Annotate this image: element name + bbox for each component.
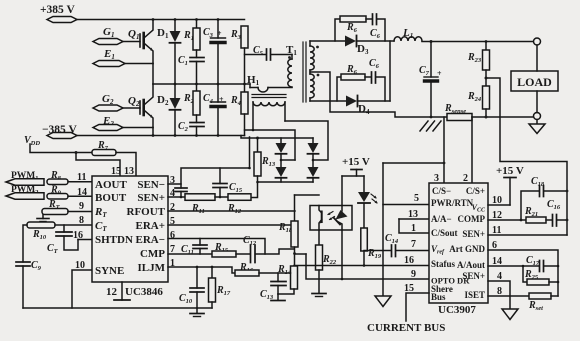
pin 12 label UC3907 <box>492 210 502 221</box>
pin 9 label UC3907 <box>411 269 416 280</box>
transformer T1 <box>286 41 319 102</box>
svg-text:12: 12 <box>492 210 502 221</box>
capacitor C10 <box>179 266 204 308</box>
svg-text:BOUT: BOUT <box>95 192 127 204</box>
resistor R19 <box>361 228 382 266</box>
wire share bus <box>406 293 429 321</box>
svg-text:10: 10 <box>75 260 85 271</box>
wire divider tap <box>485 77 568 236</box>
svg-text:C/S+: C/S+ <box>466 186 485 196</box>
wire rectifier join <box>389 41 391 101</box>
wire Q2 emitter to rail <box>152 128 154 136</box>
svg-text:16: 16 <box>73 230 83 241</box>
capacitor C4 <box>203 84 226 136</box>
svg-text:Stafus: Stafus <box>431 259 456 269</box>
wire ground rail bottom <box>23 307 212 309</box>
resistor R6 top snubber <box>335 16 372 41</box>
pin 3 label <box>170 175 175 186</box>
node CURRENT BUS <box>367 322 445 334</box>
wire RFOUT <box>168 210 295 212</box>
wire SHTDN <box>78 239 92 241</box>
svg-text:ERA−: ERA− <box>136 234 166 246</box>
capacitor C15 <box>213 168 243 197</box>
op-amp U2 UC3907 box <box>429 183 488 303</box>
inductor L1 <box>394 27 422 41</box>
wire bridge AC right <box>285 121 328 160</box>
node -385V label <box>42 124 77 136</box>
svg-text:SEN+: SEN+ <box>137 192 165 204</box>
diode bridge right bottom <box>308 167 319 182</box>
svg-text:11: 11 <box>77 172 86 183</box>
load box <box>511 71 558 91</box>
wire output return <box>472 116 534 118</box>
svg-text:ERA+: ERA+ <box>136 220 166 232</box>
node +15V right <box>496 165 524 205</box>
svg-text:LOAD: LOAD <box>517 75 552 89</box>
svg-text:10: 10 <box>492 195 502 206</box>
ground triangle load <box>529 120 545 134</box>
IC name UC3846 <box>125 286 163 298</box>
resistor R13 <box>251 137 276 198</box>
svg-text:6: 6 <box>492 240 497 251</box>
wire C/S+ sense <box>471 117 473 183</box>
node +15V left <box>342 156 370 176</box>
node G2 terminal <box>93 93 140 111</box>
wire SEN- pin4 <box>488 281 510 309</box>
resistor R15 <box>212 242 250 257</box>
resistor R16 <box>235 262 291 276</box>
resistor R3 <box>230 26 248 84</box>
resistor R11 <box>185 194 228 215</box>
svg-text:UC3907: UC3907 <box>438 304 476 316</box>
svg-text:RFOUT: RFOUT <box>127 206 166 218</box>
capacitor sense filter <box>175 184 187 197</box>
pin 4 label <box>170 188 175 199</box>
resistor R8 <box>47 170 92 185</box>
pin 6 label UC3907 <box>492 240 497 251</box>
wire SEN+ pin11 <box>488 234 567 236</box>
wire bridge bottom rail <box>258 181 314 183</box>
resistor R18 <box>278 195 298 266</box>
svg-text:AOUT: AOUT <box>95 179 127 191</box>
pin 7 label <box>170 244 175 255</box>
pin 6 label <box>170 230 175 241</box>
wire ground bus <box>383 163 444 296</box>
svg-text:ISET: ISET <box>464 290 485 300</box>
capacitor C13 <box>260 273 286 301</box>
capacitor C6 bottom snubber <box>369 58 385 101</box>
resistor Rset <box>528 293 558 312</box>
svg-text:13: 13 <box>408 209 418 220</box>
pin 10 label UC3907 <box>492 195 502 206</box>
wire PWR/RTN <box>383 204 429 206</box>
diode D2 <box>157 84 181 136</box>
wire Art GND pin6 <box>488 250 558 296</box>
diode D1 <box>157 20 181 85</box>
svg-text:Art GND: Art GND <box>449 244 485 254</box>
svg-text:UC3846: UC3846 <box>125 286 163 298</box>
capacitor C14 <box>364 233 429 257</box>
resistor RT <box>42 199 92 215</box>
svg-text:4: 4 <box>497 271 502 282</box>
resistor R23 <box>467 42 490 87</box>
svg-text:9: 9 <box>411 269 416 280</box>
wire +385V rail <box>77 19 245 21</box>
LED D5 <box>358 176 378 228</box>
svg-text:A/Aout: A/Aout <box>457 260 485 270</box>
pin 13 label <box>124 166 134 177</box>
wire opto collector <box>295 194 320 196</box>
transformer H1 <box>247 74 292 130</box>
capacitor C7 <box>419 42 442 118</box>
svg-text:+15 V: +15 V <box>496 165 524 177</box>
svg-text:11: 11 <box>492 225 501 236</box>
wire -385V rail <box>77 135 245 137</box>
node E2 terminal <box>93 115 153 131</box>
node +385V label <box>40 4 75 16</box>
svg-text:SHTDN: SHTDN <box>95 234 133 246</box>
pin 14 label UC3907 <box>492 256 502 267</box>
capacitor CT <box>47 225 78 255</box>
svg-text:SEN+: SEN+ <box>462 229 485 239</box>
svg-text:8: 8 <box>497 286 502 297</box>
transistor Q1 <box>128 20 153 64</box>
svg-text:+15 V: +15 V <box>342 156 370 168</box>
svg-text:7: 7 <box>411 239 416 250</box>
wire LED cathode to OPTO <box>341 230 343 279</box>
wire output rail <box>422 40 534 43</box>
pin 5 label <box>170 216 175 227</box>
svg-text:+385 V: +385 V <box>40 4 75 16</box>
svg-text:5: 5 <box>414 193 419 204</box>
optocoupler U3 <box>310 176 352 230</box>
node PWM2 terminal <box>6 185 44 199</box>
resistor R9 <box>47 185 92 200</box>
ground R22 <box>312 294 326 297</box>
wire pin15 feed <box>75 151 121 176</box>
wire A/A- C/Sout bracket <box>399 219 429 233</box>
resistor R25 <box>523 266 558 285</box>
svg-text:CURRENT BUS: CURRENT BUS <box>367 322 445 334</box>
wire C/S- sense <box>443 117 446 183</box>
capacitor C2 <box>178 121 204 136</box>
resistor Rsense <box>444 103 472 121</box>
svg-text:1: 1 <box>411 223 416 234</box>
diode D3 <box>345 36 394 57</box>
pin 2 label <box>170 202 175 213</box>
svg-text:A/A−: A/A− <box>431 214 452 224</box>
pin 1 label <box>170 258 175 269</box>
capacitor C16 <box>547 199 568 226</box>
wire T1 secondary bottom to D4 <box>310 100 346 102</box>
pin 4 label UC3907 <box>497 271 502 282</box>
diode D4 <box>346 96 390 117</box>
svg-text:SEN−: SEN− <box>137 179 165 191</box>
resistor R7 <box>92 140 136 176</box>
pin 7 label UC3907 <box>411 239 416 250</box>
pin 8 label <box>79 215 84 226</box>
pin 9 label <box>79 201 84 212</box>
capacitor C9 <box>16 260 42 308</box>
node output terminal bottom <box>534 91 541 120</box>
svg-text:9: 9 <box>79 201 84 212</box>
node G1 terminal <box>93 26 140 45</box>
diode bridge left top <box>276 138 287 167</box>
node -385V terminal <box>47 133 77 139</box>
pin 3 label UC3907 <box>434 173 439 184</box>
wire ISET pin8 <box>488 295 529 297</box>
node E1 terminal <box>93 48 153 67</box>
pin 14 label <box>77 187 87 198</box>
pin 1 label UC3907 <box>411 223 416 234</box>
capacitor C18 <box>521 176 568 220</box>
wire ILIM <box>168 267 235 273</box>
pin 8 label UC3907 <box>497 286 502 297</box>
capacitor C5 <box>245 45 293 60</box>
svg-text:6: 6 <box>170 230 175 241</box>
pin 12 ground stub <box>106 282 130 300</box>
svg-text:8: 8 <box>79 215 84 226</box>
svg-text:SEN+: SEN+ <box>462 271 485 281</box>
svg-text:14: 14 <box>492 256 502 267</box>
resistor R17 <box>209 266 231 308</box>
wire SEN- <box>168 137 250 184</box>
resistor R10 <box>23 222 92 262</box>
wire SEN+ <box>168 196 185 198</box>
svg-text:C/S−: C/S− <box>432 186 451 196</box>
wire ERA+ <box>168 224 291 226</box>
node output terminal top <box>534 38 541 71</box>
resistor R6 bottom snubber <box>337 64 371 101</box>
svg-text:SYNE: SYNE <box>95 265 124 277</box>
resistor R12 <box>227 194 251 215</box>
svg-text:12: 12 <box>106 286 118 298</box>
capacitor C3 <box>203 20 226 85</box>
svg-text:16: 16 <box>404 255 414 266</box>
resistor R1 <box>183 20 200 58</box>
wire bridge top rail <box>241 136 313 139</box>
wire OPTO drive <box>295 254 430 279</box>
ground bottom rail <box>190 308 204 317</box>
ground triangle mid <box>375 296 391 307</box>
pin 15 label UC3907 <box>404 283 414 294</box>
wire ERA- <box>168 239 265 255</box>
wire midpoint <box>152 64 154 85</box>
node PWM1 terminal <box>6 171 44 185</box>
pin 15 label <box>111 166 121 177</box>
resistor R21 <box>524 206 552 223</box>
pin 16 label UC3907 <box>404 255 414 266</box>
capacitor C12 <box>243 235 294 263</box>
wire SYNE <box>72 270 92 308</box>
svg-text:CMP: CMP <box>140 248 165 260</box>
ground triangle pin4 <box>502 309 518 320</box>
wire +15V rail left <box>342 175 364 177</box>
pin 5 label <box>414 193 419 204</box>
wire bridge AC left <box>245 130 296 160</box>
node +385V terminal <box>47 17 77 23</box>
svg-text:ILJM: ILJM <box>138 262 166 274</box>
wire mid rail <box>153 83 250 85</box>
wire CMP <box>168 253 212 255</box>
ground hatch output <box>420 121 441 131</box>
pin 2 label UC3907 <box>463 173 468 184</box>
capacitor C6 top snubber <box>370 14 385 41</box>
pin 16 label <box>73 230 83 241</box>
ground RT <box>37 215 49 222</box>
wire A/Aout pin14 <box>488 265 523 267</box>
svg-text:PWR/RTN: PWR/RTN <box>431 198 474 208</box>
IC name UC3907 <box>438 304 476 316</box>
transistor Q2 <box>128 84 153 128</box>
svg-text:14: 14 <box>77 187 87 198</box>
wire T1 secondary top to D3 <box>310 40 345 42</box>
pin 13 label <box>408 209 418 220</box>
resistor R14 <box>277 264 298 294</box>
capacitor C11 <box>181 239 207 257</box>
pin 10 label <box>75 260 85 271</box>
svg-text:COMP: COMP <box>458 214 486 224</box>
resistor R24 <box>467 86 490 119</box>
diode bridge left bottom <box>276 160 296 182</box>
wire COMP pin12 <box>488 219 526 222</box>
node VDD <box>24 135 92 153</box>
resistor R2 <box>183 84 200 123</box>
capacitor C1 <box>178 55 204 84</box>
svg-text:C/Sout: C/Sout <box>431 228 458 238</box>
wire Vcc pin10 <box>488 204 510 206</box>
diode bridge right top <box>308 138 319 167</box>
resistor R4 <box>230 84 248 136</box>
pin 11 label <box>77 172 86 183</box>
wire center tap return <box>310 72 447 117</box>
resistor R22 <box>316 230 337 293</box>
svg-text:Bus: Bus <box>431 292 446 302</box>
pin 11 label UC3907 <box>492 225 501 236</box>
ground C13 <box>271 294 285 301</box>
wire status line <box>294 265 429 267</box>
op-amp U1 UC3846 box <box>92 176 168 282</box>
capacitor C17 <box>523 255 558 272</box>
